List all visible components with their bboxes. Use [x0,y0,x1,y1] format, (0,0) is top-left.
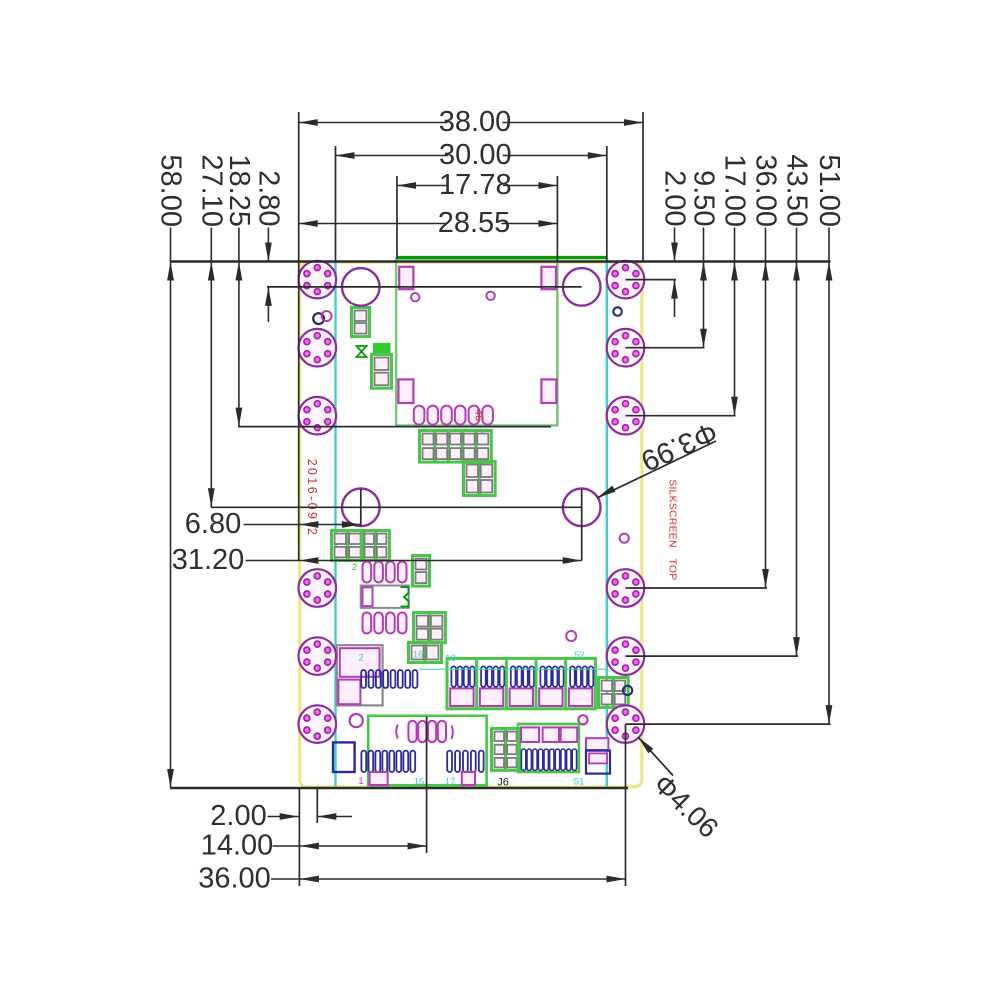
capacitor row ovals 1 [363,562,407,583]
resistor R1 body [361,586,409,608]
svg-text:17.78: 17.78 [439,169,512,201]
plated hole P2 (3.99mm) [563,268,601,306]
dimension 17.78 [397,185,448,187]
extension line below board x=299.4 [298,788,300,886]
hole H2 small magenta circle [578,715,587,724]
J6 pad left bottom [370,772,388,785]
extension line big-hole row 1 [267,286,582,288]
extension line x=426.6 (J6 center) [426,717,428,854]
mounting hole left row 4 [299,569,337,607]
pad grid 2x2 below [464,462,496,496]
via blue circle top-left [313,313,324,324]
svg-text:15: 15 [414,776,425,787]
svg-text:9.50: 9.50 [688,170,720,226]
mounting hole right row 2 [607,329,645,367]
pad grid G1 2x2 [332,531,364,561]
bottom reference extension line [170,787,628,790]
svg-text:2.00: 2.00 [210,800,266,832]
J6 left blue pin ovals [361,751,415,772]
via magenta circle above hole [566,631,576,641]
pad module bottom-right [541,379,556,403]
svg-text:16: 16 [413,650,423,660]
plated hole P3 (3.99mm) [342,489,380,527]
connector pad grid 2x5 [420,431,492,463]
pin row blue ovals U2 [361,670,417,688]
connector J1 outline [447,657,595,709]
mounting hole right row 6 [607,705,645,743]
blue mounting square right [586,751,610,774]
extension line x=298.7 (board left) [298,112,300,561]
plated hole P4 (3.99mm) [563,489,601,527]
hole H1 small magenta circle [350,714,363,727]
pad grid G4 2x2 [599,678,629,708]
svg-text:58.00: 58.00 [155,154,187,227]
svg-text:2: 2 [358,653,363,664]
mounting hole right row 1 [607,261,645,299]
module right edge green [556,262,558,425]
connector J6 outline [368,716,486,785]
svg-text:18: 18 [445,653,456,664]
extension line big-hole row 2 [211,506,582,508]
module pin pads oval row [414,406,493,425]
mounting hole right row 4 [607,569,645,607]
svg-text:14.00: 14.00 [201,830,274,862]
J6 right blue pin ovals [447,751,483,772]
J2 blue pin ovals [521,749,576,771]
top reference extension line [171,260,831,263]
via blue circle top-right [613,307,621,315]
svg-text:2.80: 2.80 [252,170,284,226]
svg-text:51: 51 [574,776,585,787]
right extension line y=588 [626,587,768,589]
plated hole P1 (3.99mm) [342,268,380,306]
module top edge thick green line [397,256,607,259]
extension line x=606.8 [606,146,608,262]
svg-text:TOP: TOP [667,559,679,581]
component C3 two pads [413,556,430,587]
svg-text:2.00: 2.00 [659,170,691,226]
pad grid G3 2x2 [414,613,446,643]
mounting hole left row 1 [299,261,337,299]
component C1 two pads [352,308,370,337]
svg-text:30.00: 30.00 [439,139,512,171]
mounting hole right row 5 [607,637,645,675]
right extension line y=724 [626,723,831,725]
svg-text:28.55: 28.55 [438,207,511,239]
mounting hole left row 6 [299,705,337,743]
cyan rail line right [606,263,608,787]
pad right magenta [586,738,608,750]
extension line below board x=625.5 [625,724,627,886]
dimension 38.00 [299,122,448,124]
blue mounting square left [333,742,355,772]
extension line x=335.5 [335,146,337,262]
component C2 pads [372,355,392,389]
module fiducial circle left [411,293,419,301]
pad module top-left [399,267,413,289]
cyan rail line left [334,263,336,787]
extension line x=557.4 (module right) [556,176,558,262]
svg-text:52: 52 [574,650,585,661]
IC U2 body [337,645,383,705]
crosshair vertical P4 [581,489,583,561]
svg-text:31.20: 31.20 [172,544,245,576]
mounting hole left row 5 [299,637,337,675]
PCB board outline (yellow) [300,262,642,787]
svg-text:36.00: 36.00 [750,154,782,227]
via magenta circle top-left [322,311,332,321]
right extension line y=280 [626,279,677,281]
svg-text:46: 46 [473,409,485,421]
extension line module bottom [238,426,551,428]
svg-text:2: 2 [352,562,357,572]
extension line x=643 (board right) [642,112,644,262]
module U1 outline (green) [396,259,557,426]
J6 pad right bottom [462,772,475,785]
module fiducial circle right [486,292,494,300]
J6 bracket marks [396,725,398,739]
right extension line y=656 [626,655,799,657]
via magenta circle mid-right [620,534,629,543]
extension line below board x=317.3 [316,788,318,823]
svg-text:36.00: 36.00 [198,863,271,895]
svg-text:18.25: 18.25 [223,154,255,227]
cyan net line [419,668,606,670]
leader Φ3.99 [597,441,716,498]
pad grid G2 2x2 [362,531,390,561]
component C4 two pads [409,643,442,663]
svg-text:1: 1 [358,776,363,787]
J6 top oval pads [408,721,446,742]
diode D1 symbol (green bowtie) [357,346,367,357]
leader Φ4.06 [638,737,673,776]
dimension 30.00 [336,155,448,157]
svg-text:17: 17 [445,776,456,787]
svg-text:27.10: 27.10 [195,154,227,227]
right extension line y=416 [626,415,736,417]
mounting hole right row 3 [607,397,645,435]
svg-text:6.80: 6.80 [185,508,241,540]
svg-text:43.50: 43.50 [781,154,813,227]
connector J2 outline [518,724,579,772]
extension line x=397 (module left) [396,176,398,259]
svg-text:38.00: 38.00 [439,106,512,138]
right extension line y=348 [626,347,705,349]
crosshair vertical P3 [360,489,362,527]
pad grid G5 2x3 [492,729,520,771]
dimension 28.55 [299,223,447,225]
via blue circle right [623,686,632,695]
pad module top-right [541,267,556,289]
capacitor row ovals 2 [363,613,407,634]
svg-text:17.00: 17.00 [719,154,751,227]
mounting hole left row 2 [299,329,337,367]
component C2 with green cap [374,344,391,356]
svg-text:SILKSCREEN: SILKSCREEN [667,479,679,548]
pad module bottom-left [398,379,413,403]
mounting hole left row 3 [299,397,337,435]
svg-text:51.00: 51.00 [813,154,845,227]
